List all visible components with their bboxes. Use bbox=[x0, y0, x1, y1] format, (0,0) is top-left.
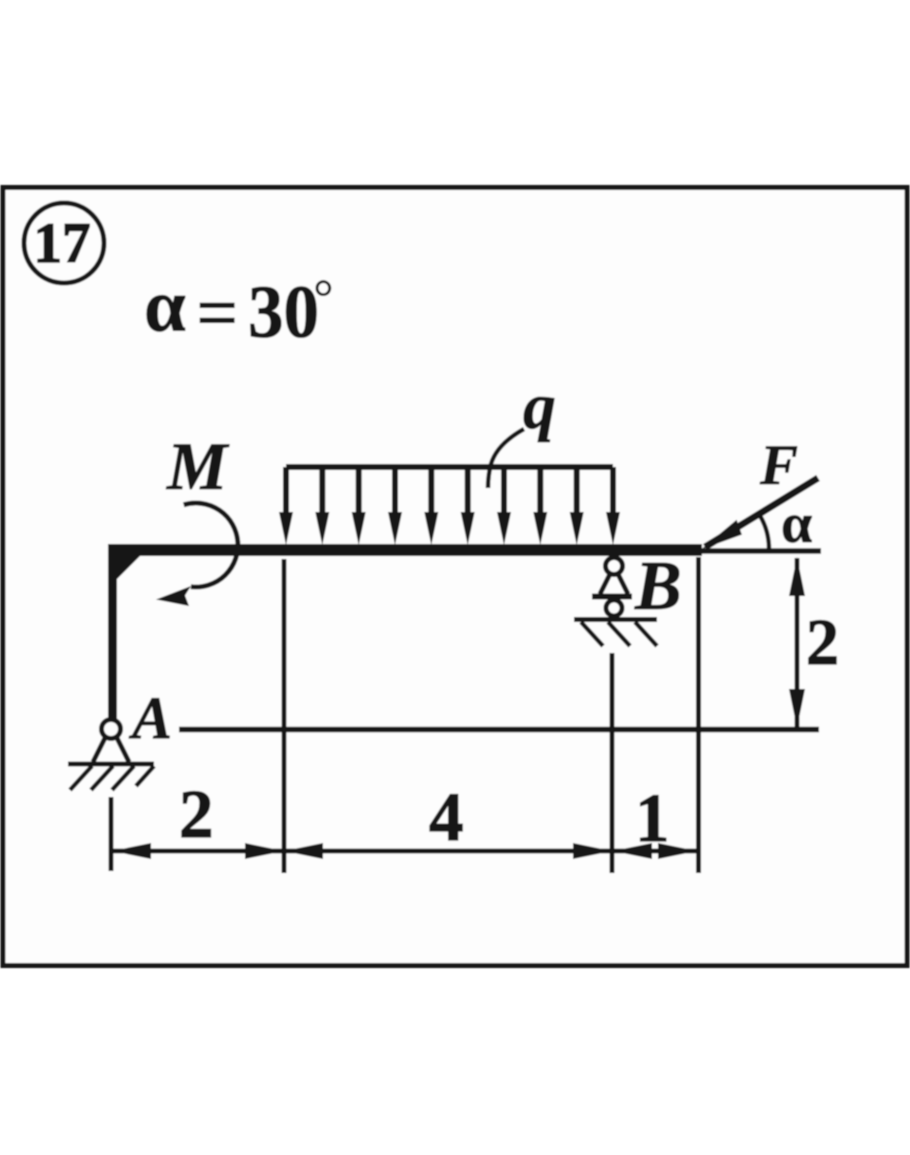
load arrowheads bbox=[279, 512, 620, 545]
extension line below support A bbox=[109, 797, 114, 871]
outer border of figure panel bbox=[3, 188, 907, 966]
support B triangle bbox=[600, 572, 628, 594]
svg-text:2: 2 bbox=[806, 606, 839, 679]
moment M arrowhead bbox=[156, 586, 191, 606]
svg-text:2: 2 bbox=[179, 776, 214, 852]
angle alpha arc bbox=[760, 515, 769, 549]
support B ground line bbox=[574, 617, 657, 622]
support B triangle base bbox=[592, 594, 632, 600]
svg-text:17: 17 bbox=[34, 212, 91, 275]
distributed load q top line bbox=[286, 464, 613, 470]
svg-text:4: 4 bbox=[429, 779, 464, 855]
svg-text:α: α bbox=[144, 265, 186, 348]
support A ground line bbox=[68, 762, 154, 767]
moment M curved arrow bbox=[184, 503, 238, 587]
svg-text:α: α bbox=[781, 493, 812, 555]
load q leader line bbox=[488, 429, 524, 488]
svg-text:M: M bbox=[166, 428, 230, 504]
extension line at load left edge bbox=[282, 559, 287, 873]
svg-text:30: 30 bbox=[248, 271, 319, 354]
dim 4 right arrowhead bbox=[573, 843, 612, 859]
dimension line 1 (B to beam end) bbox=[612, 849, 697, 854]
svg-text:q: q bbox=[523, 370, 556, 443]
support A hatching bbox=[70, 766, 154, 790]
vertical dim 2 top arrowhead bbox=[789, 557, 805, 596]
support B pin circle bbox=[606, 558, 623, 575]
support B hatching bbox=[581, 622, 657, 646]
beam (horizontal member) bbox=[108, 544, 702, 556]
support B roller bbox=[606, 600, 622, 616]
svg-text:F: F bbox=[759, 434, 798, 497]
dim 2 right arrowhead bbox=[245, 843, 284, 859]
dim 1 right arrowhead bbox=[658, 843, 697, 859]
vertical dimension line 2 (right) bbox=[795, 558, 800, 727]
extension line below support B bbox=[610, 653, 615, 873]
extension line at beam right end bbox=[696, 557, 701, 873]
svg-text:A: A bbox=[128, 685, 172, 751]
dim 1 left arrowhead bbox=[613, 843, 652, 859]
load arrow 1 bbox=[286, 467, 613, 518]
support A pin circle bbox=[102, 720, 121, 739]
corner fillet at frame joint bbox=[109, 555, 140, 587]
support A triangle bbox=[93, 736, 129, 762]
dimension line 4 (load span) bbox=[284, 849, 612, 854]
problem number circle 17 bbox=[24, 203, 104, 283]
force F vector bbox=[705, 478, 818, 547]
horizontal reference line at beam level (right) bbox=[700, 548, 821, 554]
force F arrowhead bbox=[701, 520, 742, 550]
left column (vertical member) bbox=[108, 548, 117, 723]
vertical dim 2 bottom arrowhead bbox=[789, 689, 805, 728]
svg-text:=: = bbox=[196, 272, 239, 355]
dim 2 left arrowhead bbox=[112, 843, 151, 859]
horizontal reference line at A level bbox=[179, 727, 819, 733]
svg-text:°: ° bbox=[313, 270, 334, 327]
svg-text:1: 1 bbox=[635, 780, 670, 856]
dim 4 left arrowhead bbox=[284, 843, 323, 859]
dimension line 2 (A to load) bbox=[113, 849, 284, 854]
svg-text:B: B bbox=[634, 548, 682, 625]
